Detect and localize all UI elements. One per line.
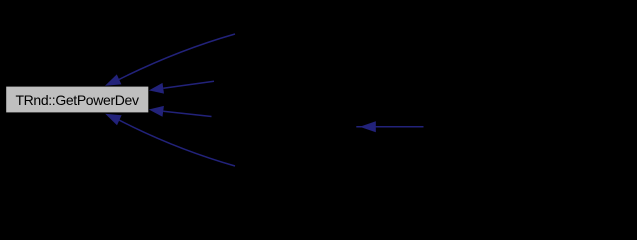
svg-text:TRnd::GetPowerDev: TRnd::GetPowerDev: [15, 92, 139, 108]
